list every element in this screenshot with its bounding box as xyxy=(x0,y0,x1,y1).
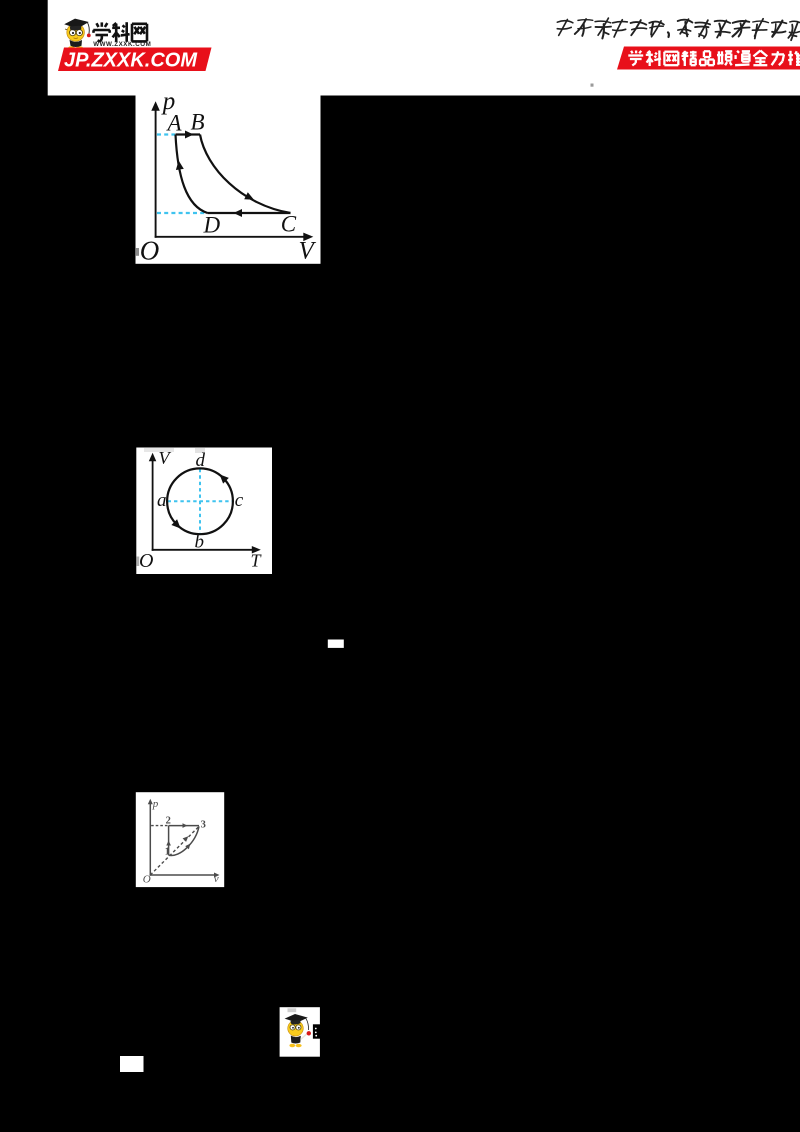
svg-text:p: p xyxy=(152,798,159,810)
fig3 V axis xyxy=(150,874,216,876)
small gray dot xyxy=(591,84,594,87)
svg-text:a: a xyxy=(157,490,167,511)
fig2 T axis xyxy=(152,549,254,551)
logo text XueKeWang xyxy=(93,22,147,42)
header white band xyxy=(48,0,800,96)
svg-text:2: 2 xyxy=(166,815,171,826)
calligraphy slogan xyxy=(557,18,800,40)
fig1 segment C-D xyxy=(208,212,291,214)
svg-text:B: B xyxy=(191,110,205,135)
figure 3 box xyxy=(136,792,224,887)
fig1 gray tick xyxy=(136,248,139,256)
fig3 curve 1-3 xyxy=(169,826,199,855)
fig1 p axis xyxy=(155,107,157,238)
svg-text:D: D xyxy=(203,213,221,238)
fig1 dashed pD level xyxy=(157,212,206,214)
mascot figure xyxy=(289,1044,295,1047)
figure 2 box xyxy=(136,448,272,575)
svg-text:O: O xyxy=(143,873,151,885)
fig2 circle arrow upper-right xyxy=(220,474,229,483)
svg-text:d: d xyxy=(196,450,206,471)
fig2 faint smudges xyxy=(144,448,174,452)
white dash mid page xyxy=(328,640,344,648)
fig1 curve D-A xyxy=(176,135,208,214)
fig1 V axis xyxy=(155,236,304,238)
fig3 dashed line O-3 xyxy=(150,826,199,875)
svg-text:C: C xyxy=(281,212,297,237)
red banner text xyxy=(628,51,800,67)
svg-text:b: b xyxy=(195,532,205,553)
white dash bottom xyxy=(120,1056,144,1072)
svg-text:WWW.ZXXK.COM: WWW.ZXXK.COM xyxy=(93,41,151,48)
logo mascot xyxy=(64,19,91,51)
svg-text:A: A xyxy=(166,110,183,135)
fig2 circle arrow lower-left xyxy=(171,519,180,528)
fig2 dashed vertical d-b xyxy=(199,469,201,534)
fig1 segment A-B xyxy=(176,133,201,135)
svg-text:c: c xyxy=(235,490,244,511)
fig2 dashed horizontal a-c xyxy=(168,500,233,502)
mascot gray strip xyxy=(288,1008,297,1012)
red logo box xyxy=(58,48,212,72)
svg-text:3: 3 xyxy=(201,820,206,831)
fig1 dashed pA level xyxy=(157,133,175,135)
red banner xyxy=(617,47,800,70)
svg-text:O: O xyxy=(140,236,160,266)
mascot black notch xyxy=(313,1024,320,1038)
svg-text:1: 1 xyxy=(165,847,170,858)
fig2 V axis xyxy=(152,459,154,551)
fig2 gray tick xyxy=(137,557,140,567)
svg-text:JP.ZXXK.COM: JP.ZXXK.COM xyxy=(64,49,198,71)
fig3 dashed level p2 xyxy=(151,825,168,827)
mascot box xyxy=(280,1007,320,1056)
fig3 segment 1-2 xyxy=(168,826,170,856)
figure 1 box xyxy=(136,94,321,264)
fig1 curve B-C xyxy=(200,135,291,214)
fig2 circle xyxy=(167,468,233,534)
fig3 segment 2-3 xyxy=(169,825,199,827)
fig3 P axis xyxy=(149,802,151,876)
svg-text:O: O xyxy=(139,550,153,572)
svg-text:v: v xyxy=(214,873,219,885)
